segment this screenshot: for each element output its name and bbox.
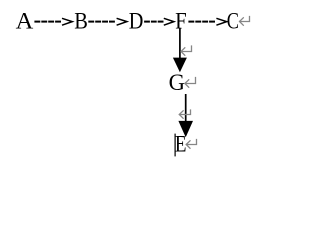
- svg-text:E: E: [175, 132, 187, 157]
- svg-text:A: A: [16, 9, 34, 34]
- svg-text:B: B: [74, 9, 88, 34]
- line-break mark beside arrow F-G: [181, 46, 192, 55]
- arrowhead > before F: [164, 18, 174, 25]
- line-break mark overlapping arrow G-E: [179, 110, 190, 118]
- svg-text:C: C: [227, 9, 239, 34]
- wire dashes F to C: [188, 21, 215, 23]
- svg-text:D: D: [129, 9, 144, 34]
- text caret before E: [175, 134, 176, 157]
- svg-text:F: F: [175, 9, 187, 34]
- wire dashes D to F: [144, 21, 163, 23]
- line-break mark after C: [240, 17, 250, 26]
- wire dashes B to D: [88, 21, 115, 23]
- arrowhead G to E: [178, 121, 193, 137]
- svg-text:G: G: [169, 70, 185, 95]
- arrowhead > before B: [62, 18, 72, 25]
- arrowhead > before C: [216, 18, 226, 25]
- arrowhead F to G: [173, 58, 187, 73]
- line-break mark after G: [185, 78, 196, 88]
- wire arrow F to G (shaft): [179, 28, 181, 59]
- line-break mark after E: [186, 140, 196, 149]
- arrowhead > before D: [117, 18, 127, 25]
- wire arrow G to E (shaft): [185, 94, 187, 122]
- wire dashes A to B: [34, 21, 61, 23]
